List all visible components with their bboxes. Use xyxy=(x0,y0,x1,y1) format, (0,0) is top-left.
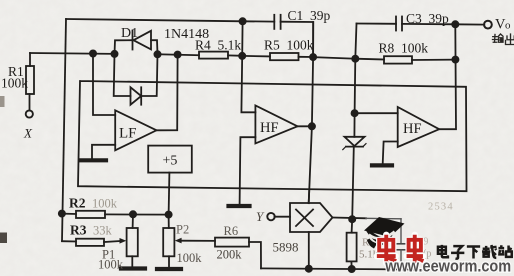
wire HF2 top input xyxy=(355,112,398,114)
wire multiplier top pin from HF1 output xyxy=(308,191,311,203)
op-amp HF1 xyxy=(255,105,297,143)
ground P2 xyxy=(157,267,181,271)
resistor R4 xyxy=(199,52,228,59)
wire LF top input xyxy=(93,54,115,116)
watermark 虫虫 red characters xyxy=(377,235,424,263)
terminal Vo xyxy=(455,23,484,25)
glyph 子 xyxy=(451,246,464,259)
op-amp HF2 xyxy=(398,107,440,147)
op-amp LF xyxy=(115,110,156,150)
capacitor C1 xyxy=(240,18,246,24)
terminal Y xyxy=(267,213,274,220)
svg-text:R8 100k: R8 100k xyxy=(379,41,429,56)
node P2 top junction xyxy=(166,212,172,218)
svg-text:100k: 100k xyxy=(92,197,118,211)
glyph 电 xyxy=(438,245,448,257)
node diode left junction xyxy=(111,51,117,57)
watermark graduation cap xyxy=(364,217,405,249)
node multiplier bottom bus junction xyxy=(306,266,312,272)
wire C1 right node down through HF1 output to multiplier top xyxy=(309,22,314,203)
svg-text:HF: HF xyxy=(260,120,279,136)
node LF input junction xyxy=(90,50,96,56)
svg-text:5898: 5898 xyxy=(273,240,299,255)
diode D1 bottom (pointing right) xyxy=(114,54,131,96)
wire HF1 output xyxy=(298,125,312,127)
svg-text:+5: +5 xyxy=(163,154,178,169)
node R2 left junction xyxy=(59,211,65,217)
wire HF2 output up to C3 right node xyxy=(439,24,456,129)
svg-text:R6: R6 xyxy=(224,224,239,238)
node R8 left junction xyxy=(352,56,358,62)
svg-text:33k: 33k xyxy=(93,224,113,238)
capacitor 40p hidden under watermark xyxy=(366,217,401,220)
wire diode down to multiplier output node xyxy=(352,147,354,220)
wire R5 to R8 xyxy=(313,57,355,59)
chinese 输出 under Vo xyxy=(493,34,514,45)
svg-text:C1 39p: C1 39p xyxy=(288,8,331,23)
potentiometer P1 xyxy=(132,214,134,228)
wire LF output up to main wire xyxy=(157,55,178,131)
svg-text:200k: 200k xyxy=(217,248,243,262)
svg-text:P2: P2 xyxy=(176,223,189,237)
glyph 站 xyxy=(498,245,512,257)
svg-text:R2: R2 xyxy=(69,196,86,211)
wire main horizontal to R4 xyxy=(158,53,200,56)
resistor R5 xyxy=(242,55,270,58)
node R5 right junction xyxy=(310,54,316,60)
node P1 top junction xyxy=(130,211,136,217)
wire HF1 bottom input to ground xyxy=(240,137,256,204)
wire C1 left node down to HF1 input xyxy=(241,21,255,112)
wire R3 to P1 wiper arrow xyxy=(104,241,122,242)
wire multiplier bottom pin to bus xyxy=(308,232,310,269)
terminal X xyxy=(26,110,33,117)
wire bottom bus xyxy=(261,268,427,269)
glyph 载 xyxy=(482,245,497,258)
node HF1 output junction xyxy=(309,123,315,129)
resistor R3 xyxy=(62,240,76,242)
glyph 出 xyxy=(506,34,514,45)
svg-text:C3 39p: C3 39p xyxy=(406,11,449,26)
wire multiplier output xyxy=(333,217,367,220)
capacitor C3 xyxy=(357,23,397,25)
multiplier 5898 xyxy=(290,203,333,232)
IC box outline 2534 xyxy=(78,81,467,191)
node multiplier output junction xyxy=(349,216,355,222)
ground LF xyxy=(81,158,107,162)
watermark 电子下载站 black characters xyxy=(438,245,512,259)
svg-text:100k: 100k xyxy=(1,76,28,91)
node HF2 input junction xyxy=(352,110,358,116)
wiper arrow P2 (pointing left) xyxy=(175,238,182,244)
diode internal (pointing down) xyxy=(353,113,355,137)
potentiometer P2 xyxy=(168,215,170,228)
resistor R2 xyxy=(62,213,76,215)
wire HF2 bottom input to ground xyxy=(383,142,398,164)
svg-text:www.eeworm.com: www.eeworm.com xyxy=(384,257,511,275)
svg-text:100k: 100k xyxy=(177,251,203,265)
node R8 right junction xyxy=(452,57,458,63)
resistor R7 vertical under multiplier output xyxy=(351,219,354,233)
wire top feedback line from left bus to C1 left node xyxy=(66,19,243,21)
ground HF1 xyxy=(229,204,250,208)
node diode right junction xyxy=(154,51,160,57)
svg-text:X: X xyxy=(23,126,33,141)
ground P1 xyxy=(121,266,145,270)
resistor R8 xyxy=(355,58,384,61)
scan smudge left edge xyxy=(0,96,5,107)
svg-text:HF: HF xyxy=(403,121,422,137)
node LF output junction xyxy=(175,52,181,58)
svg-text:R4 5.1k: R4 5.1k xyxy=(195,38,241,53)
wire LF bottom input to ground xyxy=(92,145,115,159)
svg-text:o: o xyxy=(505,20,511,32)
resistor R6 xyxy=(215,238,249,247)
svg-text:R3: R3 xyxy=(70,223,87,238)
wire left bus vertical xyxy=(62,19,66,241)
glyph 输 xyxy=(493,34,504,42)
node R4/R5 junction xyxy=(239,53,245,59)
wire +5 down to P2 node xyxy=(168,173,171,215)
svg-text:100k: 100k xyxy=(98,258,124,272)
wire P2 wiper to R6 xyxy=(181,240,215,242)
ground HF2 xyxy=(372,163,392,167)
svg-text:R5 100k: R5 100k xyxy=(264,37,314,52)
wire main horizontal left segment xyxy=(30,52,115,55)
diode D1 top (pointing left) xyxy=(115,40,132,54)
svg-text:D1: D1 xyxy=(121,26,138,41)
svg-text:2534: 2534 xyxy=(428,202,454,213)
glyph 下 xyxy=(467,246,480,258)
resistor R1 xyxy=(29,53,31,66)
svg-text:LF: LF xyxy=(119,126,137,142)
box +5 supply xyxy=(148,146,192,173)
wire C3 left down xyxy=(355,24,357,114)
